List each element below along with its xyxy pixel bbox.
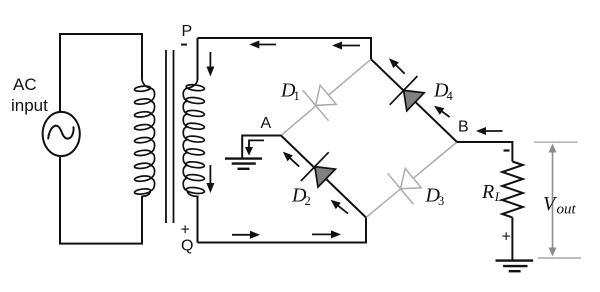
svg-text:1: 1 <box>294 89 300 103</box>
current arrow on secondary top <box>209 52 211 71</box>
wire: bridge edge A to bottom (conducting) <box>281 136 366 218</box>
svg-text:B: B <box>458 119 469 136</box>
current arrow on D2 branch near A <box>287 156 299 167</box>
wire: bridge edge top to B (conducting) <box>371 59 457 142</box>
ground at node A <box>225 157 262 159</box>
AC source <box>43 112 80 156</box>
wire: bridge edge A to top (off path) <box>281 59 371 135</box>
wire: A to ground <box>242 136 281 159</box>
svg-text:+: + <box>181 222 190 239</box>
transformer core <box>165 50 167 223</box>
wire: resistor to ground <box>511 218 513 261</box>
svg-text:Q: Q <box>181 238 193 255</box>
wire: secondary top lead to P <box>197 38 199 80</box>
svg-text:4: 4 <box>447 89 454 103</box>
current arrow toward B <box>482 130 503 132</box>
svg-text:+: + <box>502 229 511 246</box>
wire: bottom from Q to bridge bottom <box>198 218 367 243</box>
diode D3 (off) <box>401 169 422 189</box>
current arrow on D4 branch above diode <box>393 62 404 73</box>
wire: bridge edge bottom to B (off path) <box>366 142 457 218</box>
wire: top from P to bridge top <box>198 38 372 59</box>
diode D4 (conducting) <box>404 90 425 110</box>
polarity - at P <box>181 44 187 46</box>
wire: AC input loop <box>60 34 142 244</box>
svg-text:R: R <box>481 181 494 203</box>
resistor RL <box>502 162 523 218</box>
current arrow on D4 branch near B <box>439 109 450 117</box>
transformer primary winding <box>135 80 149 196</box>
transformer secondary winding <box>183 79 204 196</box>
svg-text:P: P <box>182 23 193 40</box>
svg-text:AC: AC <box>13 75 37 94</box>
current arrow on bottom wire (left segment) <box>232 234 254 236</box>
svg-text:input: input <box>11 96 48 115</box>
wire: B to load <box>457 142 512 162</box>
current arrow on bottom wire (right segment) <box>312 233 335 235</box>
svg-text:A: A <box>261 115 272 132</box>
current arrow on top wire (left segment) <box>255 44 276 46</box>
svg-text:L: L <box>494 189 502 204</box>
ground at load <box>496 259 534 261</box>
svg-text:2: 2 <box>305 194 311 208</box>
svg-text:out: out <box>557 202 577 218</box>
wire: secondary bottom lead to Q <box>197 196 199 243</box>
current arrow on secondary bottom <box>209 165 211 187</box>
current arrow into ground at A <box>249 140 264 148</box>
svg-text:3: 3 <box>438 194 444 208</box>
polarity - at load top <box>504 149 510 151</box>
Vout measurement arrow <box>534 141 577 143</box>
current arrow on D2 branch below diode <box>335 203 348 213</box>
current arrow on top wire (right segment) <box>338 45 360 47</box>
diode D1 (off) <box>316 85 337 105</box>
diode D2 (conducting) <box>315 167 336 188</box>
